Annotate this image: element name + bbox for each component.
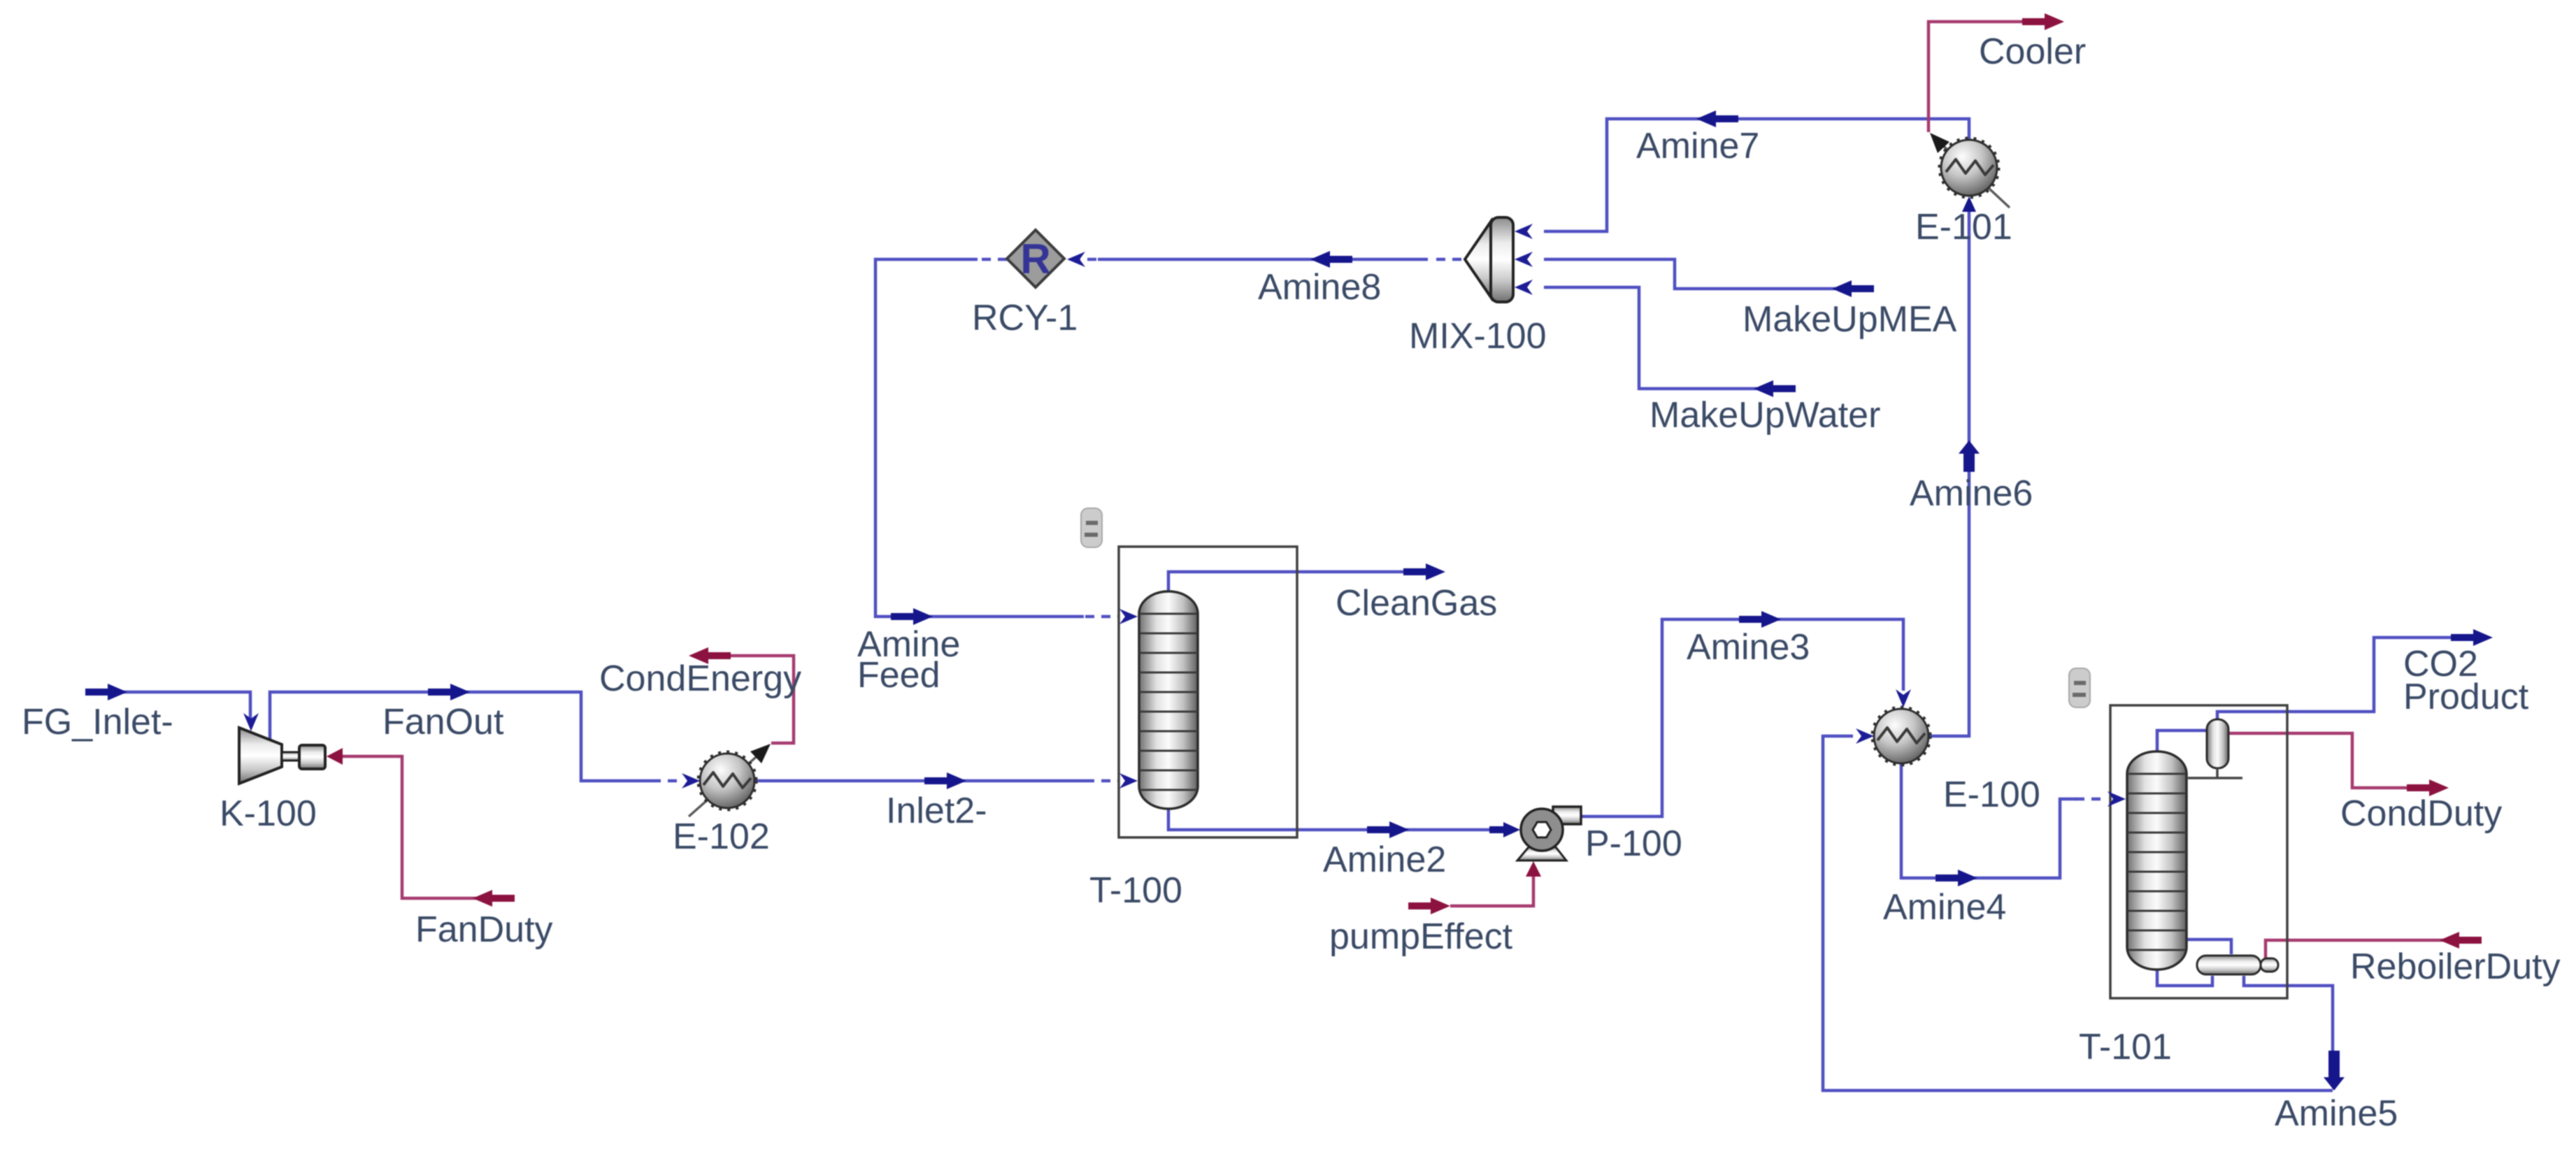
svg-text:Feed: Feed	[857, 655, 940, 696]
svg-text:MakeUpMEA: MakeUpMEA	[1743, 299, 1957, 340]
svg-text:P-100: P-100	[1585, 823, 1682, 864]
svg-text:pumpEffect: pumpEffect	[1329, 916, 1513, 957]
svg-text:CleanGas: CleanGas	[1336, 583, 1497, 624]
svg-text:FanDuty: FanDuty	[415, 909, 553, 950]
svg-text:Amine5: Amine5	[2275, 1093, 2398, 1134]
svg-text:E-102: E-102	[673, 816, 770, 857]
svg-text:CondEnergy: CondEnergy	[599, 658, 801, 699]
svg-text:ReboilerDuty: ReboilerDuty	[2350, 946, 2561, 987]
svg-text:MakeUpWater: MakeUpWater	[1650, 395, 1880, 435]
svg-text:K-100: K-100	[220, 793, 317, 834]
svg-text:Amine7: Amine7	[1636, 126, 1759, 166]
svg-text:Cooler: Cooler	[1979, 31, 2086, 72]
svg-text:Amine3: Amine3	[1687, 627, 1810, 668]
svg-text:Amine6: Amine6	[1910, 473, 2033, 514]
svg-text:FanOut: FanOut	[382, 702, 504, 742]
svg-text:FG_Inlet-: FG_Inlet-	[22, 702, 173, 742]
svg-text:T-100: T-100	[1089, 870, 1182, 911]
svg-text:R: R	[1020, 236, 1050, 282]
svg-text:MIX-100: MIX-100	[1409, 316, 1547, 357]
svg-text:Amine4: Amine4	[1883, 887, 2006, 928]
svg-text:Inlet2-: Inlet2-	[886, 791, 987, 831]
svg-text:E-100: E-100	[1943, 775, 2040, 815]
svg-text:T-101: T-101	[2079, 1027, 2172, 1067]
svg-text:E-101: E-101	[1915, 207, 2012, 247]
svg-text:Amine8: Amine8	[1258, 267, 1381, 308]
svg-text:Amine2: Amine2	[1323, 840, 1446, 880]
svg-text:RCY-1: RCY-1	[972, 298, 1078, 338]
svg-text:CondDuty: CondDuty	[2340, 793, 2502, 834]
svg-text:Product: Product	[2403, 677, 2529, 717]
